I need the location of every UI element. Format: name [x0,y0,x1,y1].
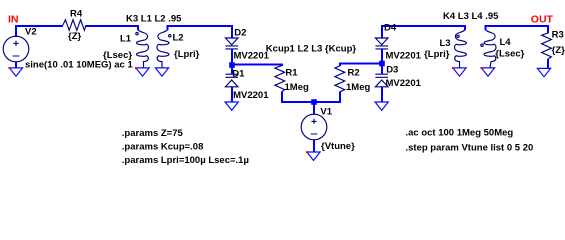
wire R4 to L1 [86,26,138,30]
wire V1 bottom stub [313,140,315,152]
svg-text:Kcup1 L2 L3 {Kcup}: Kcup1 L2 L3 {Kcup} [266,44,357,55]
ground below L1 [136,68,149,76]
wire D4 top to rail [382,26,465,38]
svg-text:L2: L2 [173,33,184,44]
svg-text:D1: D1 [232,69,245,80]
wire D2 to node [231,50,233,65]
svg-text:L1: L1 [120,34,132,45]
wire node to D3 [381,66,383,74]
svg-text:MV2201: MV2201 [386,50,422,61]
svg-text:{Z}: {Z} [68,31,82,42]
wire L4 to R3 [486,26,549,33]
svg-text:{Lpri}: {Lpri} [424,49,450,60]
svg-text:{Lsec}: {Lsec} [495,49,524,60]
wire R3 bottom stub [547,59,549,68]
svg-text:1Meg: 1Meg [346,82,370,93]
varactor D2 [225,38,238,49]
svg-text:OUT: OUT [531,13,554,25]
ground below L3 [453,68,466,76]
svg-text:D3: D3 [386,64,398,75]
svg-text:MV2201: MV2201 [386,78,422,89]
svg-text:IN: IN [8,13,19,25]
svg-text:R2: R2 [348,68,360,79]
ground below V2 [9,68,22,76]
ground below L4 [481,68,494,76]
phase dot of L1 [136,32,138,34]
wire R2 bottom to V1 node [314,92,340,103]
ground below L2 [155,68,168,76]
svg-text:.params Z=75: .params Z=75 [122,128,184,139]
wire node to R1 [232,65,282,67]
wire D4 to node [381,50,383,64]
wire V1 top stub [313,102,315,114]
wire R1 bottom to V1 node [282,92,314,103]
ground below D3 [375,102,388,110]
resistor R2 [335,66,345,92]
junction node V1 [311,99,317,105]
svg-text:.params Lpri=100µ Lsec=.1µ: .params Lpri=100µ Lsec=.1µ [122,155,249,166]
phase dot of L2 [169,35,171,37]
svg-text:R3: R3 [552,30,564,41]
svg-text:R1: R1 [285,68,298,79]
svg-text:{Lsec}: {Lsec} [103,50,132,61]
varactor D1 [225,74,238,87]
svg-text:.ac oct 100 1Meg 50Meg: .ac oct 100 1Meg 50Meg [406,128,514,139]
svg-text:K4 L3 L4 .95: K4 L3 L4 .95 [443,11,499,22]
wire V2 bottom stub [15,62,17,68]
svg-text:{Z}: {Z} [552,45,565,56]
varactor D3 [375,74,388,87]
resistor R3 [542,33,552,59]
svg-text:V1: V1 [320,106,332,117]
wire D3 to ground [381,87,383,102]
svg-text:V2: V2 [25,26,37,37]
svg-text:1Meg: 1Meg [285,82,309,93]
svg-text:MV2201: MV2201 [233,90,269,101]
wire node to D1 [231,67,233,75]
wire D1 to ground [231,87,233,102]
svg-text:MV2201: MV2201 [234,50,270,61]
wire V2 top stub and rail to R4 [16,26,63,37]
inductor L4 [484,30,496,68]
phase dot of L3 [457,35,459,37]
svg-text:D4: D4 [384,23,397,34]
inductor L3 [455,30,467,68]
resistor R4 [63,20,86,31]
inductor L1 [137,30,149,68]
svg-text:{Vtune}: {Vtune} [321,141,355,152]
svg-text:L4: L4 [500,37,512,48]
ground below V1 [307,152,320,160]
voltage source V2 [3,36,29,62]
svg-text:L3: L3 [440,38,451,49]
varactor D4 [375,38,388,49]
phase dot of L4 [481,44,483,46]
svg-text:.params Kcup=.08: .params Kcup=.08 [122,141,204,152]
inductor L2 [157,30,169,68]
svg-text:R4: R4 [70,8,83,19]
junction node left varactor pair [229,62,235,68]
svg-text:D2: D2 [234,28,246,39]
ground below R3 [537,68,550,76]
svg-text:K3 L1 L2 .95: K3 L1 L2 .95 [126,13,182,24]
ground below D1 [225,102,238,110]
svg-text:{Lpri}: {Lpri} [174,49,200,60]
voltage source V1 [301,114,327,140]
svg-text:sine(10 .01 10MEG) ac 1: sine(10 .01 10MEG) ac 1 [25,60,133,71]
resistor R1 [275,66,285,92]
junction node right varactor pair [379,61,385,67]
wire L2 to D2 [168,26,233,38]
svg-text:.step param Vtune list 0 5 20: .step param Vtune list 0 5 20 [406,143,534,154]
wire R2 top to right node [340,64,382,67]
